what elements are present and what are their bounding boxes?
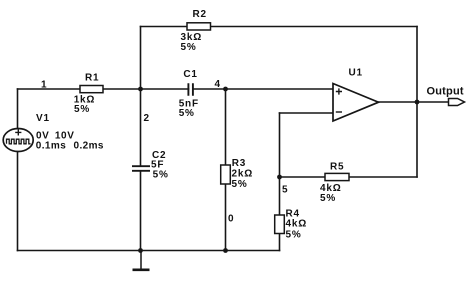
junction ground left (138, 248, 143, 253)
svg-text:R2: R2 (193, 9, 207, 20)
resistor R2 (181, 9, 211, 53)
svg-text:1: 1 (41, 80, 47, 91)
wire node5 vertical (279, 113, 281, 251)
svg-text:0.2ms: 0.2ms (74, 141, 104, 152)
wire V1 top lead (17, 89, 19, 129)
svg-text:5%: 5% (181, 42, 197, 53)
svg-text:4kΩ: 4kΩ (286, 218, 308, 229)
wire inverting input (280, 112, 334, 114)
resistor R1 (74, 73, 103, 116)
svg-text:5%: 5% (232, 179, 248, 190)
svg-text:C1: C1 (183, 69, 197, 80)
capacitor C2 (132, 150, 169, 180)
svg-text:R5: R5 (330, 162, 344, 173)
wire left vertical node2 lower (140, 171, 142, 251)
wire right vertical (416, 27, 418, 178)
wire R5 horizontal (280, 176, 418, 178)
svg-text:R1: R1 (85, 73, 99, 84)
svg-text:2: 2 (144, 113, 150, 124)
junction output (415, 100, 420, 105)
wire main horizontal node1 (18, 88, 189, 90)
svg-text:2kΩ: 2kΩ (232, 169, 254, 180)
svg-text:U1: U1 (349, 68, 363, 79)
svg-text:5%: 5% (74, 104, 90, 115)
junction ground right (223, 248, 228, 253)
svg-text:V1: V1 (36, 113, 50, 124)
wire R3 branch (225, 89, 227, 251)
wire node4 to opamp (194, 88, 333, 90)
source V1 (3, 113, 104, 152)
wire left vertical node2 upper (140, 27, 142, 166)
svg-text:5: 5 (282, 185, 288, 196)
wire V1 bottom lead (17, 152, 19, 251)
svg-text:R3: R3 (232, 158, 246, 169)
resistor R3 (221, 158, 253, 190)
svg-text:5%: 5% (320, 193, 336, 204)
svg-text:5%: 5% (286, 229, 302, 240)
svg-text:0.1ms: 0.1ms (36, 141, 66, 152)
svg-text:5%: 5% (179, 108, 195, 119)
svg-text:Output: Output (427, 86, 464, 98)
svg-text:0: 0 (228, 214, 234, 225)
svg-text:4: 4 (215, 79, 221, 90)
wire top feedback (141, 26, 418, 28)
output flag (427, 86, 465, 106)
junction node4 (223, 87, 228, 92)
wire bottom bus (18, 250, 280, 252)
svg-text:5%: 5% (153, 170, 169, 181)
ground (133, 251, 150, 270)
junction node2-R1 (138, 87, 143, 92)
resistor R5 (320, 162, 349, 204)
op-amp U1 (333, 68, 379, 122)
wire opamp output (379, 101, 449, 103)
capacitor C1 (179, 69, 199, 119)
junction node5 (277, 175, 282, 180)
resistor R4 (275, 209, 307, 241)
